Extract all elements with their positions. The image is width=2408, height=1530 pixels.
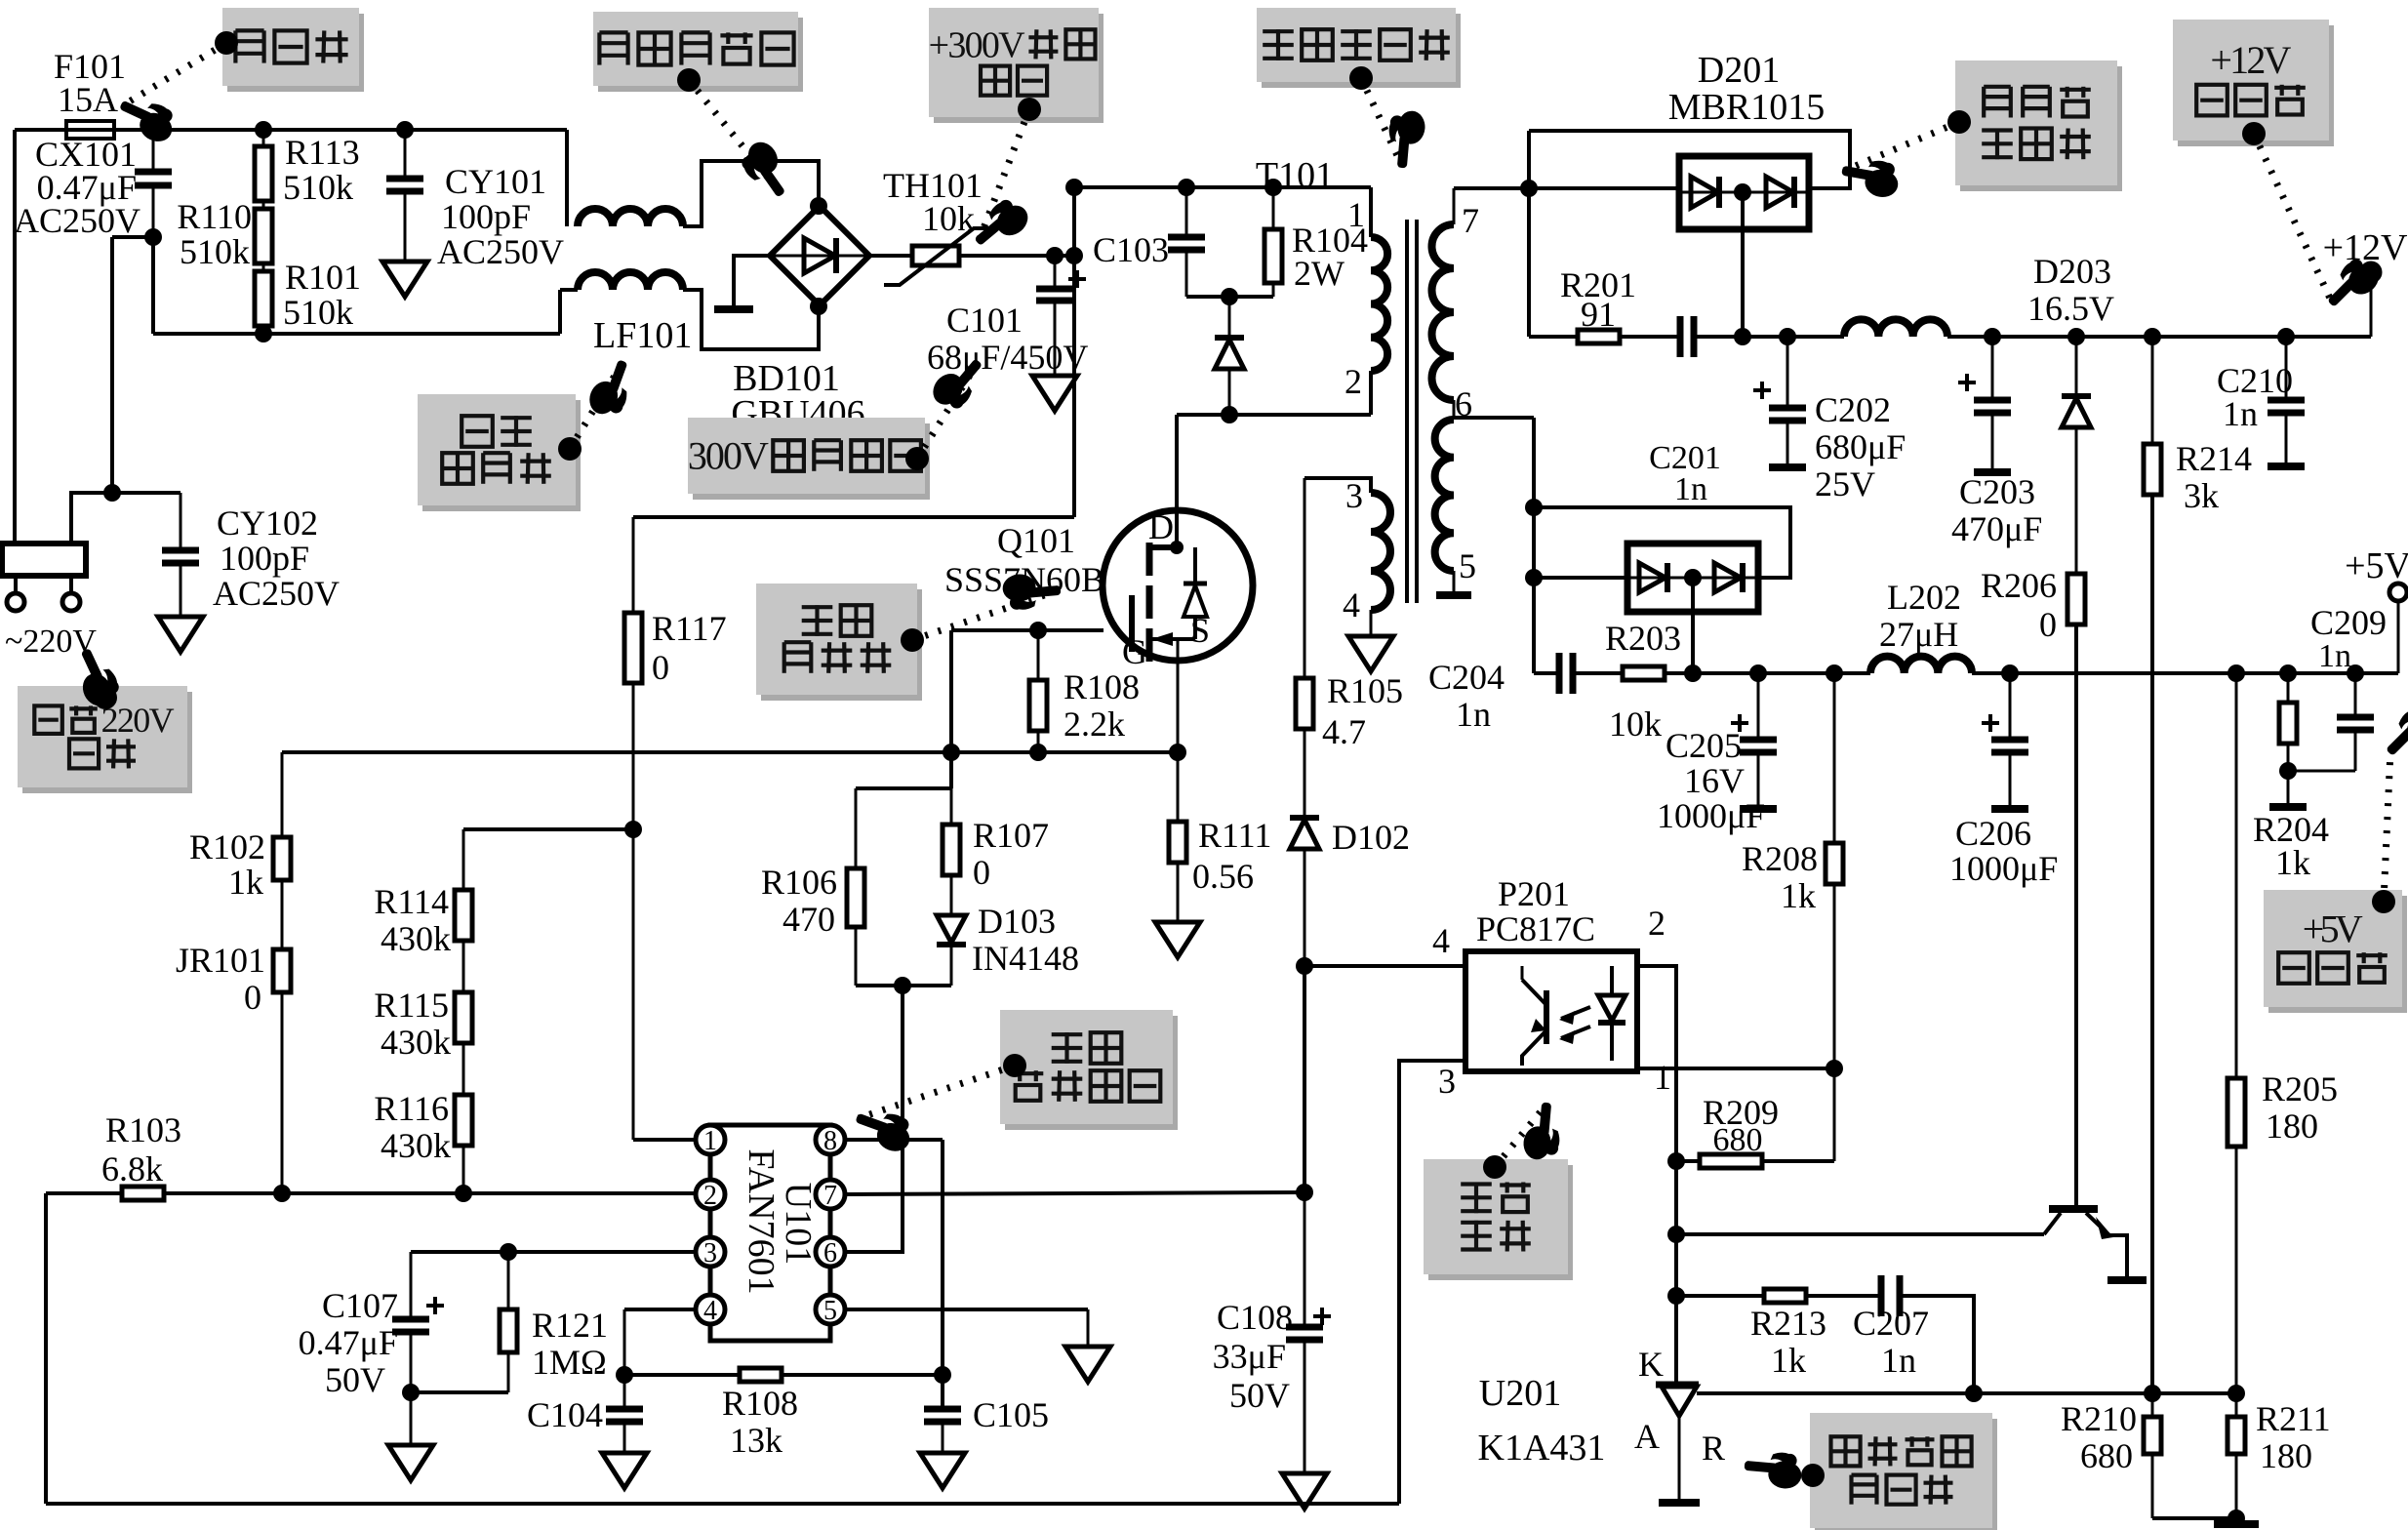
svg-text:16V: 16V — [1684, 761, 1745, 800]
svg-text:A: A — [1634, 1417, 1660, 1456]
ground CY102 — [158, 617, 203, 652]
label C108 — [1213, 1298, 1331, 1415]
junction R113 top — [255, 121, 272, 139]
wire T101 pin4 lead — [1370, 610, 1373, 634]
svg-text:R108: R108 — [1064, 667, 1140, 706]
junction divider top — [624, 821, 642, 838]
svg-text:+12V: +12V — [2323, 227, 2408, 268]
U101 pin 7 — [816, 1180, 845, 1211]
junction C203 rail — [1984, 328, 2001, 345]
label C107 — [299, 1286, 444, 1399]
label R104 — [1292, 221, 1368, 293]
svg-text:R210: R210 — [2061, 1399, 2137, 1438]
svg-text:R102: R102 — [189, 827, 265, 866]
resistor R201 — [1578, 330, 1620, 343]
wire drain link — [1177, 413, 1371, 417]
pin 7 label — [1462, 201, 1479, 240]
label R115 — [374, 986, 451, 1062]
label BD101 — [731, 358, 864, 434]
resistor R101 — [255, 271, 272, 334]
resistor R206 — [2067, 574, 2085, 624]
ground C206 bar — [1991, 805, 2028, 813]
svg-text:R213: R213 — [1750, 1304, 1826, 1343]
wire gate-drive node — [282, 750, 1178, 754]
svg-text:1k: 1k — [2275, 843, 2310, 882]
U101 pin 5 — [816, 1295, 845, 1326]
junction CY101 top — [396, 121, 414, 139]
callout error amp — [1743, 1413, 1997, 1530]
wire filter box bottom — [153, 332, 560, 336]
junction C105 node — [934, 1366, 951, 1384]
wire D202 center tap — [1691, 578, 1695, 673]
wire CX101 bottom jog — [112, 235, 153, 239]
junction D202 center — [1684, 569, 1702, 586]
label P201 — [1476, 874, 1595, 948]
svg-text:2: 2 — [1648, 904, 1666, 943]
junction bridge bottom — [810, 298, 827, 315]
svg-text:R208: R208 — [1742, 839, 1818, 878]
wire pin3 link — [411, 1250, 696, 1254]
bridge BD101 inner diode — [770, 238, 869, 273]
callout bridge — [593, 12, 803, 204]
junction gate R108 — [1029, 622, 1047, 639]
ground R111 — [1155, 922, 1200, 957]
Q101 source exit — [1177, 639, 1180, 753]
svg-text:Q101: Q101 — [997, 521, 1075, 560]
wire P201 pin1 link — [1637, 1067, 1834, 1070]
label TH101 — [883, 166, 983, 238]
label T101 — [1256, 155, 1334, 196]
svg-text:1: 1 — [1654, 1058, 1671, 1097]
svg-text:0.47μF: 0.47μF — [299, 1323, 398, 1362]
U101 pin 2 — [696, 1180, 725, 1211]
svg-text:JR101: JR101 — [176, 941, 265, 980]
svg-text:1n: 1n — [2223, 394, 2258, 433]
ground C203 bar — [1974, 468, 2011, 476]
resistor R204 — [2279, 673, 2297, 805]
Q101 channel dashes — [1146, 543, 1153, 662]
wire snub loop bottom — [856, 984, 951, 987]
wire bottom rail — [46, 1502, 1399, 1506]
svg-text:3k: 3k — [2184, 476, 2219, 515]
junction center tap rail — [1734, 328, 1751, 345]
junction pin2 R213 — [1667, 1287, 1685, 1305]
label C203 — [1951, 472, 2042, 548]
wire box to LF101 bottom — [560, 288, 578, 292]
resistor R214 — [2144, 337, 2161, 495]
wire +5V rail seg2 — [1573, 671, 1623, 675]
label ~220V — [5, 624, 97, 660]
wire gate — [951, 628, 1104, 632]
svg-text:13k: 13k — [730, 1421, 783, 1460]
label R108 2.2k — [1064, 667, 1140, 744]
label S — [1190, 611, 1210, 650]
junction D201 center — [1734, 183, 1751, 201]
label U101 rotated — [778, 1183, 819, 1265]
svg-text:680μF: 680μF — [1815, 427, 1906, 466]
svg-text:T101: T101 — [1256, 155, 1334, 196]
label D103 — [972, 902, 1079, 978]
transistor Q201 emitter — [2086, 1213, 2127, 1278]
label R211 — [2256, 1399, 2331, 1475]
label R107 — [973, 816, 1049, 892]
junction lower box left — [1525, 569, 1543, 586]
junction top rail CX101 — [144, 121, 162, 139]
label R110 — [177, 197, 252, 271]
label C207 — [1853, 1304, 1929, 1380]
ground T101 pin4 — [1348, 636, 1393, 671]
callout 5V out — [2264, 701, 2408, 1013]
junction node x975 — [943, 744, 960, 761]
transformer T101 secondary coil 6-5 — [1435, 420, 1454, 571]
svg-text:470μF: 470μF — [1951, 509, 2042, 548]
junction R102 chain — [273, 1185, 291, 1202]
svg-text:+12V: +12V — [2210, 38, 2291, 82]
svg-text:C101: C101 — [946, 301, 1023, 340]
pin 5 label — [1459, 546, 1476, 585]
ground C104 — [602, 1453, 647, 1488]
svg-text:C203: C203 — [1959, 472, 2035, 511]
transformer T101 primary coil 1-2 — [1371, 237, 1387, 371]
bridge BD101 diamond — [770, 206, 869, 305]
svg-text:15A: 15A — [58, 80, 118, 119]
svg-text:+5V: +5V — [2303, 907, 2363, 951]
svg-text:430k: 430k — [381, 919, 451, 958]
resistor R114 — [455, 829, 472, 992]
resistor R209 — [1700, 1154, 1762, 1168]
label R203 — [1605, 619, 1681, 744]
wire R210 R211 bottom — [2152, 1516, 2236, 1520]
pin 1 label P201 — [1654, 1058, 1671, 1097]
wire top AC line — [15, 128, 567, 132]
svg-text:0: 0 — [973, 853, 990, 892]
svg-text:300V: 300V — [688, 434, 769, 478]
resistor R113 — [255, 130, 272, 209]
svg-text:R117: R117 — [652, 609, 727, 648]
thermistor TH101 — [884, 228, 989, 285]
junction bridge top — [810, 197, 827, 215]
label R206 — [1981, 566, 2057, 644]
svg-text:R111: R111 — [1198, 816, 1271, 855]
wire R103 left — [46, 1191, 122, 1195]
svg-text:0: 0 — [244, 978, 261, 1017]
capacitor CY101 — [386, 130, 423, 260]
ground C107 — [388, 1445, 433, 1480]
junction snubber diode — [1221, 288, 1238, 305]
label D203 — [2027, 252, 2114, 328]
ground C210 bar — [2268, 463, 2305, 470]
svg-text:R115: R115 — [374, 986, 449, 1025]
svg-text:R116: R116 — [374, 1089, 449, 1128]
svg-text:R105: R105 — [1327, 671, 1403, 710]
wire T101 pin5 stub — [1436, 571, 1471, 595]
wire left AC vertical — [13, 130, 17, 544]
wire pin1 link — [633, 1138, 696, 1142]
wire R201 feed — [1527, 188, 1531, 337]
svg-text:0: 0 — [652, 648, 669, 687]
ground C108 — [1282, 1473, 1327, 1509]
U101 pin 1 — [696, 1125, 725, 1156]
wire +5V rail seg4 — [1972, 671, 2398, 675]
label U201 — [1478, 1373, 1606, 1469]
wire P201 pin4 link — [1304, 964, 1465, 968]
junction C104 node — [616, 1366, 633, 1384]
label C105 — [973, 1395, 1049, 1434]
svg-text:+5V: +5V — [2345, 545, 2408, 586]
svg-text:C104: C104 — [527, 1395, 603, 1434]
svg-text:K: K — [1638, 1345, 1664, 1384]
junction +300V riser — [1065, 247, 1083, 264]
wire pin8 link — [845, 1138, 943, 1142]
label L202 — [1879, 578, 1961, 654]
resistor R110 — [255, 209, 272, 271]
wire T101 pin1 lead — [1369, 187, 1373, 237]
svg-text:10k: 10k — [922, 199, 975, 238]
resistor R108 13k — [740, 1368, 782, 1382]
junction node R108 — [1029, 744, 1047, 761]
wire +300V rail — [1074, 185, 1371, 189]
wire top rail corner — [565, 130, 569, 226]
capacitor CX101 — [135, 130, 172, 237]
pin 2 label P201 — [1648, 904, 1666, 943]
svg-text:2.2k: 2.2k — [1064, 705, 1125, 744]
callout optocoupler — [1424, 1101, 1573, 1280]
junction rail left — [1065, 179, 1083, 196]
label CX101 — [14, 135, 140, 240]
capacitor C204 — [1559, 653, 1573, 694]
svg-text:7: 7 — [1462, 201, 1479, 240]
wire R214 down — [2150, 495, 2154, 1393]
label R201 — [1560, 265, 1636, 334]
resistor R115 — [455, 992, 472, 1095]
diode D201 dual box — [1679, 156, 1809, 229]
junction ref R211 — [2227, 1385, 2245, 1402]
svg-text:91: 91 — [1581, 295, 1616, 334]
svg-text:FAN7601: FAN7601 — [741, 1148, 782, 1294]
svg-text:R101: R101 — [285, 258, 361, 297]
svg-text:D103: D103 — [978, 902, 1056, 941]
svg-text:1: 1 — [1347, 195, 1365, 234]
capacitor C202 — [1753, 337, 1806, 465]
svg-text:3: 3 — [1345, 476, 1363, 515]
resistor R208 — [1826, 673, 1843, 1161]
svg-text:L202: L202 — [1887, 578, 1961, 617]
inductor L201 — [1844, 319, 1947, 337]
junction pin7 node — [1520, 180, 1538, 197]
pin 4 label P201 — [1432, 921, 1450, 960]
svg-text:180: 180 — [2260, 1436, 2312, 1475]
svg-text:K1A431: K1A431 — [1478, 1428, 1606, 1469]
svg-text:G: G — [1122, 632, 1147, 671]
wire snubber bottom — [1186, 295, 1273, 299]
label C210 — [2217, 361, 2293, 433]
svg-text:1MΩ: 1MΩ — [532, 1343, 607, 1382]
svg-text:R121: R121 — [532, 1306, 608, 1345]
wire T101 pin7 top — [1454, 188, 1529, 224]
svg-text:R103: R103 — [105, 1110, 181, 1149]
callout fuse — [113, 8, 364, 146]
wire lower loop — [1534, 507, 1790, 578]
wire snub loop top — [856, 786, 951, 790]
junction R204 rail — [2279, 664, 2297, 682]
junction C207 drop — [1965, 1385, 1983, 1402]
inductor LF101 bottom coil — [578, 272, 683, 290]
ground Q201 bar — [2107, 1276, 2147, 1284]
junction C205 rail — [1749, 664, 1767, 682]
pin 1 label — [1347, 195, 1365, 234]
pin 4 label — [1343, 585, 1360, 624]
wire T101 pin3 link — [1304, 478, 1371, 493]
junction bottom R211 — [2227, 1510, 2245, 1527]
capacitor C209 — [2288, 673, 2374, 771]
P201 light arrows — [1559, 1007, 1590, 1044]
junction ref R210 — [2144, 1385, 2161, 1402]
wire R209 left — [1676, 1159, 1700, 1163]
svg-text:6: 6 — [1455, 384, 1472, 423]
resistor R203 — [1623, 666, 1665, 680]
label R — [1702, 1429, 1725, 1468]
wire TL431 ref — [1697, 1391, 2236, 1395]
svg-text:C204: C204 — [1428, 658, 1505, 697]
label R204 — [2253, 810, 2329, 882]
svg-text:10k: 10k — [1609, 705, 1662, 744]
svg-text:R211: R211 — [2256, 1399, 2331, 1438]
fuse F101 — [66, 121, 114, 139]
svg-text:C202: C202 — [1815, 390, 1891, 429]
plug pin right — [62, 576, 80, 611]
wire filter box left edge — [151, 237, 155, 334]
diode D202 dual box — [1627, 544, 1758, 612]
wire R201 to C201 — [1620, 335, 1680, 339]
transistor Q201 bar — [2049, 1205, 2098, 1213]
resistor R213 — [1764, 1289, 1806, 1303]
junction pin1 R208 — [1826, 1060, 1843, 1077]
svg-text:50V: 50V — [1229, 1376, 1290, 1415]
junction C107 bottom — [402, 1384, 420, 1401]
resistor R211 — [2227, 1393, 2245, 1518]
label K — [1638, 1345, 1664, 1384]
svg-text:C206: C206 — [1955, 814, 2031, 853]
diode D101 snubber — [1215, 297, 1244, 415]
label D102 — [1332, 818, 1410, 857]
svg-text:510k: 510k — [283, 293, 353, 332]
ground pin5 — [1065, 1347, 1110, 1382]
svg-text:C103: C103 — [1093, 230, 1169, 269]
capacitor CY102 — [162, 493, 199, 615]
Q101 gate bar — [1129, 595, 1135, 652]
svg-text:C108: C108 — [1217, 1298, 1293, 1337]
svg-text:R214: R214 — [2176, 439, 2252, 478]
wire left border — [44, 1193, 48, 1504]
P201 led — [1598, 966, 1625, 1061]
junction C206 rail — [2001, 664, 2019, 682]
ground bridge chassis bar — [714, 305, 753, 313]
label R102 — [189, 827, 265, 902]
svg-text:1: 1 — [703, 1126, 717, 1156]
wire pin6 link — [845, 1250, 903, 1254]
wire P201 pin2 link — [1637, 966, 1676, 1385]
wire +12V rail right — [1947, 335, 2371, 339]
svg-text:25V: 25V — [1815, 464, 1875, 503]
svg-text:430k: 430k — [381, 1023, 451, 1062]
svg-text:470: 470 — [783, 900, 835, 939]
svg-text:6: 6 — [823, 1238, 837, 1268]
svg-text:AC250V: AC250V — [437, 232, 564, 271]
label R205 — [2262, 1069, 2338, 1146]
wire +300V riser — [1072, 187, 1076, 517]
pin 3 label P201 — [1438, 1062, 1456, 1101]
label R101 — [283, 258, 361, 332]
svg-text:50V: 50V — [325, 1360, 385, 1399]
ground CY101 — [382, 262, 427, 297]
U101 pin 6 — [816, 1237, 845, 1268]
junction D202 tap rail — [1684, 664, 1702, 682]
resistor R103 — [122, 1187, 164, 1200]
ground C101 — [1032, 376, 1077, 411]
wire U201 anode — [1678, 1416, 1681, 1501]
resistor R108 gate — [1029, 630, 1047, 752]
label CY101 — [437, 162, 564, 271]
label D — [1148, 507, 1174, 546]
wire R209 right — [1762, 1159, 1834, 1163]
label C205 — [1657, 726, 1765, 835]
transformer T101 secondary coil 7-6 — [1432, 224, 1455, 400]
callout dual diode — [1839, 60, 2122, 200]
svg-text:1000μF: 1000μF — [1657, 796, 1765, 835]
svg-text:C205: C205 — [1666, 726, 1742, 765]
resistor R210 — [2144, 1393, 2161, 1518]
U101 pin 4 — [696, 1295, 725, 1326]
label C202 — [1815, 390, 1906, 503]
svg-text:3: 3 — [703, 1238, 717, 1268]
label JR101 — [176, 941, 265, 1017]
label Q101 — [944, 521, 1104, 599]
wire +5V rail seg3 — [1665, 671, 1870, 675]
svg-text:430k: 430k — [381, 1126, 451, 1165]
label FAN7601 rotated — [741, 1148, 782, 1294]
label R209 — [1703, 1093, 1779, 1158]
D201 diode left — [1691, 177, 1719, 208]
svg-text:1n: 1n — [1674, 471, 1707, 507]
label C209 — [2310, 603, 2387, 674]
diode D203 zener — [2062, 337, 2091, 574]
capacitor C205 — [1731, 673, 1777, 807]
wire T101 pin2 drop — [1369, 371, 1373, 415]
AC plug — [2, 544, 86, 576]
capacitor C104 — [606, 1409, 643, 1452]
ground C105 — [920, 1453, 965, 1488]
wire R213 to C207 — [1806, 1294, 1881, 1298]
diode D103 — [937, 915, 966, 986]
resistor JR101 — [273, 949, 291, 1193]
svg-text:R: R — [1702, 1429, 1725, 1468]
svg-text:S: S — [1190, 611, 1210, 650]
resistor R104 — [1264, 187, 1282, 297]
wire pin6 drop — [1532, 418, 1536, 673]
junction lower loop top — [1525, 499, 1543, 516]
wire bridge output — [869, 254, 1074, 258]
svg-text:0.56: 0.56 — [1192, 857, 1254, 896]
wire pin7 link — [845, 1192, 1304, 1194]
wire transistor base — [1676, 1232, 2044, 1236]
transistor Q101 MOSFET circle — [1103, 510, 1253, 661]
junction pin2 base — [1667, 1226, 1685, 1243]
svg-text:P201: P201 — [1498, 874, 1570, 913]
callout 300V cap — [688, 349, 991, 500]
wire D201 outer loop — [1529, 131, 1850, 188]
wire lower box left link — [1534, 576, 1627, 580]
svg-text:AC250V: AC250V — [213, 574, 340, 613]
